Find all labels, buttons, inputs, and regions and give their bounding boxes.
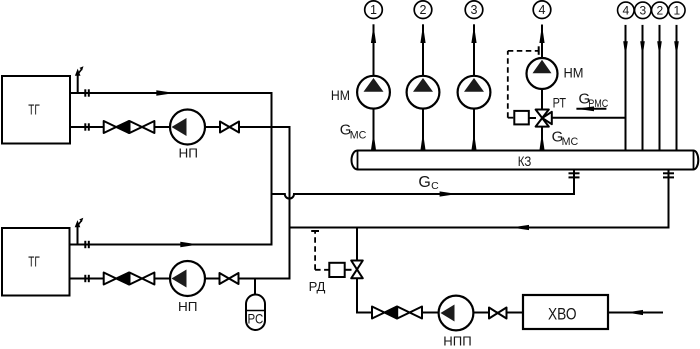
gate valve TG2 feed [130, 273, 155, 285]
svg-text:2: 2 [656, 4, 663, 18]
sensor tick RD [311, 230, 319, 232]
svg-text:НМ: НМ [564, 65, 584, 81]
flange TG1 feed [85, 123, 89, 130]
svg-text:НМ: НМ [331, 87, 350, 103]
node number 1 [365, 1, 383, 19]
flow arrow Gc right [440, 191, 458, 196]
wire riser 1 lower [373, 109, 375, 151]
flow arrow return riser2 down [657, 41, 662, 57]
regulator valve RD [351, 261, 363, 279]
flow arrow Grmc left [576, 106, 594, 111]
network pump NM4 [527, 58, 558, 89]
wire feed header vertical [289, 127, 291, 279]
wire makeup vertical [356, 228, 358, 313]
svg-text:ТГ: ТГ [28, 102, 39, 118]
label Gmc right [552, 129, 579, 149]
flow arrow return riser4 down [623, 41, 628, 57]
wire riser 3 lower [473, 109, 475, 151]
wire RS drop [254, 279, 256, 295]
svg-text:4: 4 [539, 3, 546, 17]
node number 3 [465, 1, 483, 19]
flange TG1 steam [85, 89, 89, 96]
wire raw water inlet [608, 312, 662, 314]
label Gc [418, 174, 439, 192]
svg-text:3: 3 [471, 3, 478, 17]
flange TG2 steam [85, 241, 89, 248]
label Grmc [579, 90, 609, 110]
pump NP1 [170, 110, 205, 161]
wire riser 2 upper [422, 24, 424, 76]
wire vent stub TG1 [77, 74, 79, 94]
wire return riser 3 [642, 25, 644, 151]
wire Grmc arrow line [576, 108, 606, 110]
wire riser 4 lower [541, 127, 543, 151]
network pump NM2 [407, 76, 440, 109]
wire return line [290, 227, 669, 229]
node number 3 return [635, 2, 652, 19]
svg-text:РМС: РМС [588, 98, 608, 110]
gate valve after NP1 [220, 122, 239, 133]
wire vent stub TG2 [77, 225, 79, 245]
svg-text:1: 1 [673, 4, 680, 18]
wire TG2 feed pipe [70, 278, 290, 280]
wire riser 3 upper [473, 24, 475, 76]
heater TG2 [2, 228, 70, 296]
check valve TG2 feed [104, 273, 129, 285]
actuator RD [329, 263, 351, 277]
heater TG1 [2, 76, 70, 144]
label Gmc left [340, 122, 367, 142]
wire return riser 1 [676, 25, 678, 151]
check valve makeup [372, 307, 397, 319]
flow arrow riser1 top [371, 25, 376, 43]
flange drain 1 [569, 173, 580, 177]
gate valve after NP2 [220, 273, 239, 284]
flow arrow inlet left [626, 310, 644, 315]
wire collector drain 2 [668, 169, 670, 228]
wire Gc line with hop [272, 194, 575, 199]
wire RT recirculation [553, 117, 626, 119]
svg-text:ХВО: ХВО [548, 305, 577, 323]
gate valve TG1 feed [130, 121, 155, 133]
dashed impulse line RD [315, 232, 329, 270]
pump NP2 [170, 261, 205, 314]
wire return riser 4 [625, 25, 627, 151]
wire return riser 2 [659, 25, 661, 151]
flow arrow riser1 bottom [371, 133, 376, 151]
wire steam header vertical [271, 93, 273, 245]
sensor tick RT [538, 46, 540, 55]
gate valve after NPP [489, 308, 507, 319]
svg-text:3: 3 [639, 4, 646, 18]
svg-text:G: G [418, 174, 430, 191]
svg-text:1: 1 [370, 3, 377, 17]
wire riser 4 upper [541, 25, 543, 59]
wire TG2 steam pipe [70, 244, 272, 246]
collector KZ [352, 151, 699, 170]
flow arrow riser2 bottom [420, 133, 425, 151]
wire riser 4 middle [541, 89, 543, 109]
flow arrow TG1 steam [156, 90, 174, 96]
flange drain 2 [663, 173, 674, 177]
flow arrow return left [511, 225, 529, 230]
expansion vessel RS [246, 295, 265, 331]
network pump NM1 [357, 76, 390, 109]
svg-text:РТ: РТ [553, 95, 567, 111]
svg-text:НПП: НПП [443, 333, 471, 348]
flow arrow riser2 top [420, 25, 425, 43]
flow arrow return riser3 down [640, 41, 645, 57]
regulator valve RT three-way [536, 110, 552, 127]
svg-text:МС: МС [562, 136, 579, 148]
svg-text:ТГ: ТГ [28, 255, 39, 271]
node number 2 [414, 1, 432, 19]
svg-text:РД: РД [309, 280, 326, 294]
node number 4 return [618, 2, 635, 19]
wire collector drain 1 [573, 169, 575, 194]
network pump NM3 [458, 76, 491, 109]
flange TG2 feed [85, 275, 89, 282]
vent arrow TG2 [75, 218, 84, 228]
svg-text:НП: НП [178, 299, 198, 314]
wire TG1 steam pipe [70, 92, 272, 94]
check valve TG1 feed [104, 121, 129, 133]
svg-text:2: 2 [420, 3, 427, 17]
wire riser 1 upper [373, 24, 375, 76]
svg-text:РС: РС [248, 310, 264, 326]
svg-text:МС: МС [350, 130, 367, 142]
gate valve makeup [397, 307, 422, 319]
flow arrow riser4 top [539, 25, 544, 43]
svg-text:КЗ: КЗ [518, 153, 532, 169]
wire riser 2 lower [422, 109, 424, 151]
water treatment XVO [523, 295, 608, 329]
actuator RT [514, 111, 536, 125]
node number 2 return [652, 2, 669, 19]
flow arrow return riser1 down [674, 41, 679, 57]
wire TG1 feed pipe [70, 126, 290, 128]
flow arrow TG2 steam [180, 242, 198, 248]
flow arrow riser3 bottom [471, 133, 476, 151]
pump NPP [439, 296, 474, 349]
flow arrow riser3 top [471, 25, 476, 43]
svg-text:4: 4 [622, 4, 629, 18]
wire makeup horizontal [357, 312, 523, 314]
svg-text:С: С [431, 180, 439, 192]
svg-text:НП: НП [179, 146, 199, 161]
dashed impulse line RT [508, 51, 540, 118]
node number 4 [533, 1, 551, 19]
node number 1 return [669, 2, 686, 19]
vent arrow TG1 [75, 66, 84, 76]
flow arrow riser4 bottom Gmc [539, 133, 544, 151]
